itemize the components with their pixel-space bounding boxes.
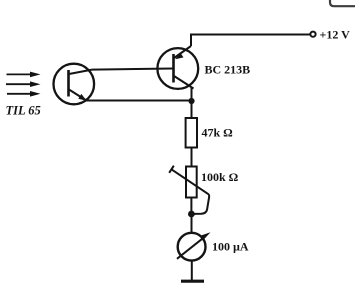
svg-text:100k Ω: 100k Ω [201,170,239,184]
light arrow 2 [6,81,41,87]
phototransistor Q1 [54,64,95,105]
ground [181,280,204,283]
junction node A [188,98,194,104]
svg-text:+12 V: +12 V [320,28,351,42]
+12V terminal [310,32,315,37]
light arrow 3 [7,91,41,97]
wire M1 to ground [191,261,193,281]
wire R2 bottom to node B [190,198,192,215]
wire Q1 emitter to node A [86,100,192,102]
wire node A to R1 [191,101,193,118]
light arrow 1 [7,72,41,78]
svg-text:47k Ω: 47k Ω [202,126,234,140]
potentiometer R2 [169,166,209,198]
wire Q2 emitter to +12V rail [191,35,311,47]
svg-text:100 µA: 100 µA [212,240,249,254]
wire R2 wiper to node B [194,194,209,214]
wire R1 to R2 [191,148,193,167]
wire node B to meter M1 [191,214,193,233]
wire Q1 collector to Q2 base [92,69,173,70]
svg-text:TIL 65: TIL 65 [6,104,41,118]
meter M1 [177,232,211,260]
wire Q2 collector to node A [191,87,193,101]
resistor R1 [186,118,197,148]
junction node B [188,211,195,218]
transistor Q2 [157,46,198,89]
svg-text:BC 213B: BC 213B [205,63,251,77]
